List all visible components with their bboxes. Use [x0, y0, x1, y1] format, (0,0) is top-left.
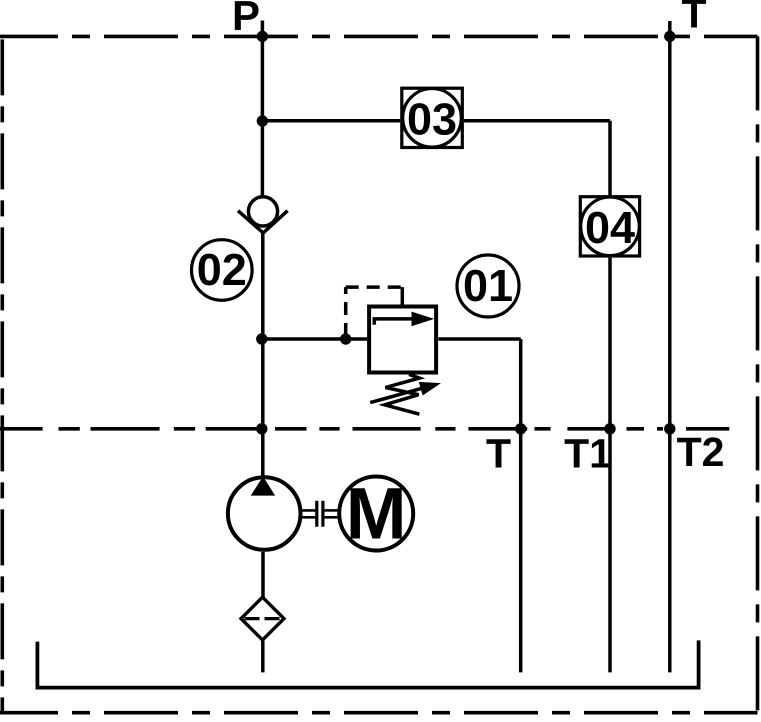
svg-text:T: T — [681, 0, 706, 37]
svg-text:T: T — [486, 431, 511, 477]
shaft coupling right bar — [321, 501, 324, 527]
svg-text:04: 04 — [585, 202, 635, 253]
node branch to relief valve junction dot — [256, 333, 267, 344]
suction filter diamond — [241, 597, 284, 640]
node P junction dot — [257, 31, 268, 42]
internal boundary line (dash-dot) — [0, 427, 729, 431]
relief valve spring — [385, 374, 420, 414]
balloon label 01 — [457, 255, 519, 317]
pump circle — [228, 477, 301, 550]
svg-text:P: P — [232, 0, 260, 39]
wire T stub above border — [668, 21, 672, 36]
wire 04 down to tank (T1 line) — [608, 258, 612, 673]
node T2 dot on boundary — [664, 423, 675, 434]
wire below check valve down to pump — [261, 233, 265, 478]
enclosure border right (dash-dot) — [756, 36, 760, 712]
node T junction dot — [664, 31, 675, 42]
wire relief valve outlet right — [438, 337, 521, 341]
wire P stub above border — [261, 21, 265, 37]
balloon label 02 — [192, 240, 253, 301]
check valve ball — [248, 197, 277, 226]
wire T line down to tank — [668, 36, 672, 672]
tank outline — [37, 640, 698, 687]
svg-text:M: M — [346, 474, 407, 555]
motor M circle — [339, 477, 413, 551]
pilot line dashed horizontal — [346, 285, 403, 289]
wire 03 to corner — [464, 119, 610, 123]
shaft coupling left double line — [299, 510, 316, 517]
shaft coupling right double line — [325, 510, 338, 517]
relief valve adjustment arrow — [370, 382, 441, 403]
svg-text:T2: T2 — [677, 429, 725, 475]
wire branch to relief valve — [262, 337, 368, 341]
wire pump suction down — [261, 552, 265, 597]
enclosure border left (dash-dot) — [0, 36, 4, 712]
pump outlet triangle — [251, 477, 276, 496]
pilot line drop into valve top — [401, 287, 405, 305]
svg-text:T1: T1 — [564, 431, 612, 477]
cavity element 03 (circle in square) — [402, 88, 463, 147]
wire filter down to tank — [261, 640, 265, 672]
pilot line dashed vertical — [344, 287, 348, 336]
relief valve flow arrow — [374, 312, 434, 327]
wire relief outlet down to tank (T line) — [519, 339, 523, 672]
node pilot tap junction dot — [340, 333, 351, 344]
cavity element 04 (circle in square) — [580, 197, 639, 256]
wire branch P to element 03 — [262, 119, 400, 123]
node dot left line on boundary — [256, 423, 267, 434]
wire P line down to check valve — [261, 36, 265, 197]
node T dot on boundary — [515, 423, 526, 434]
check valve seat — [238, 211, 288, 233]
relief valve 01 body — [369, 307, 436, 373]
node T1 dot on boundary — [604, 423, 615, 434]
svg-text:02: 02 — [197, 244, 247, 295]
wire corner down to 04 — [608, 121, 612, 195]
node branch to 03 junction dot — [257, 115, 268, 126]
svg-text:03: 03 — [407, 93, 457, 144]
svg-text:01: 01 — [463, 260, 513, 311]
enclosure border bottom (dash-dot) — [0, 711, 758, 715]
shaft coupling left bar — [315, 501, 318, 527]
enclosure border top (dash-dot) — [0, 35, 758, 39]
